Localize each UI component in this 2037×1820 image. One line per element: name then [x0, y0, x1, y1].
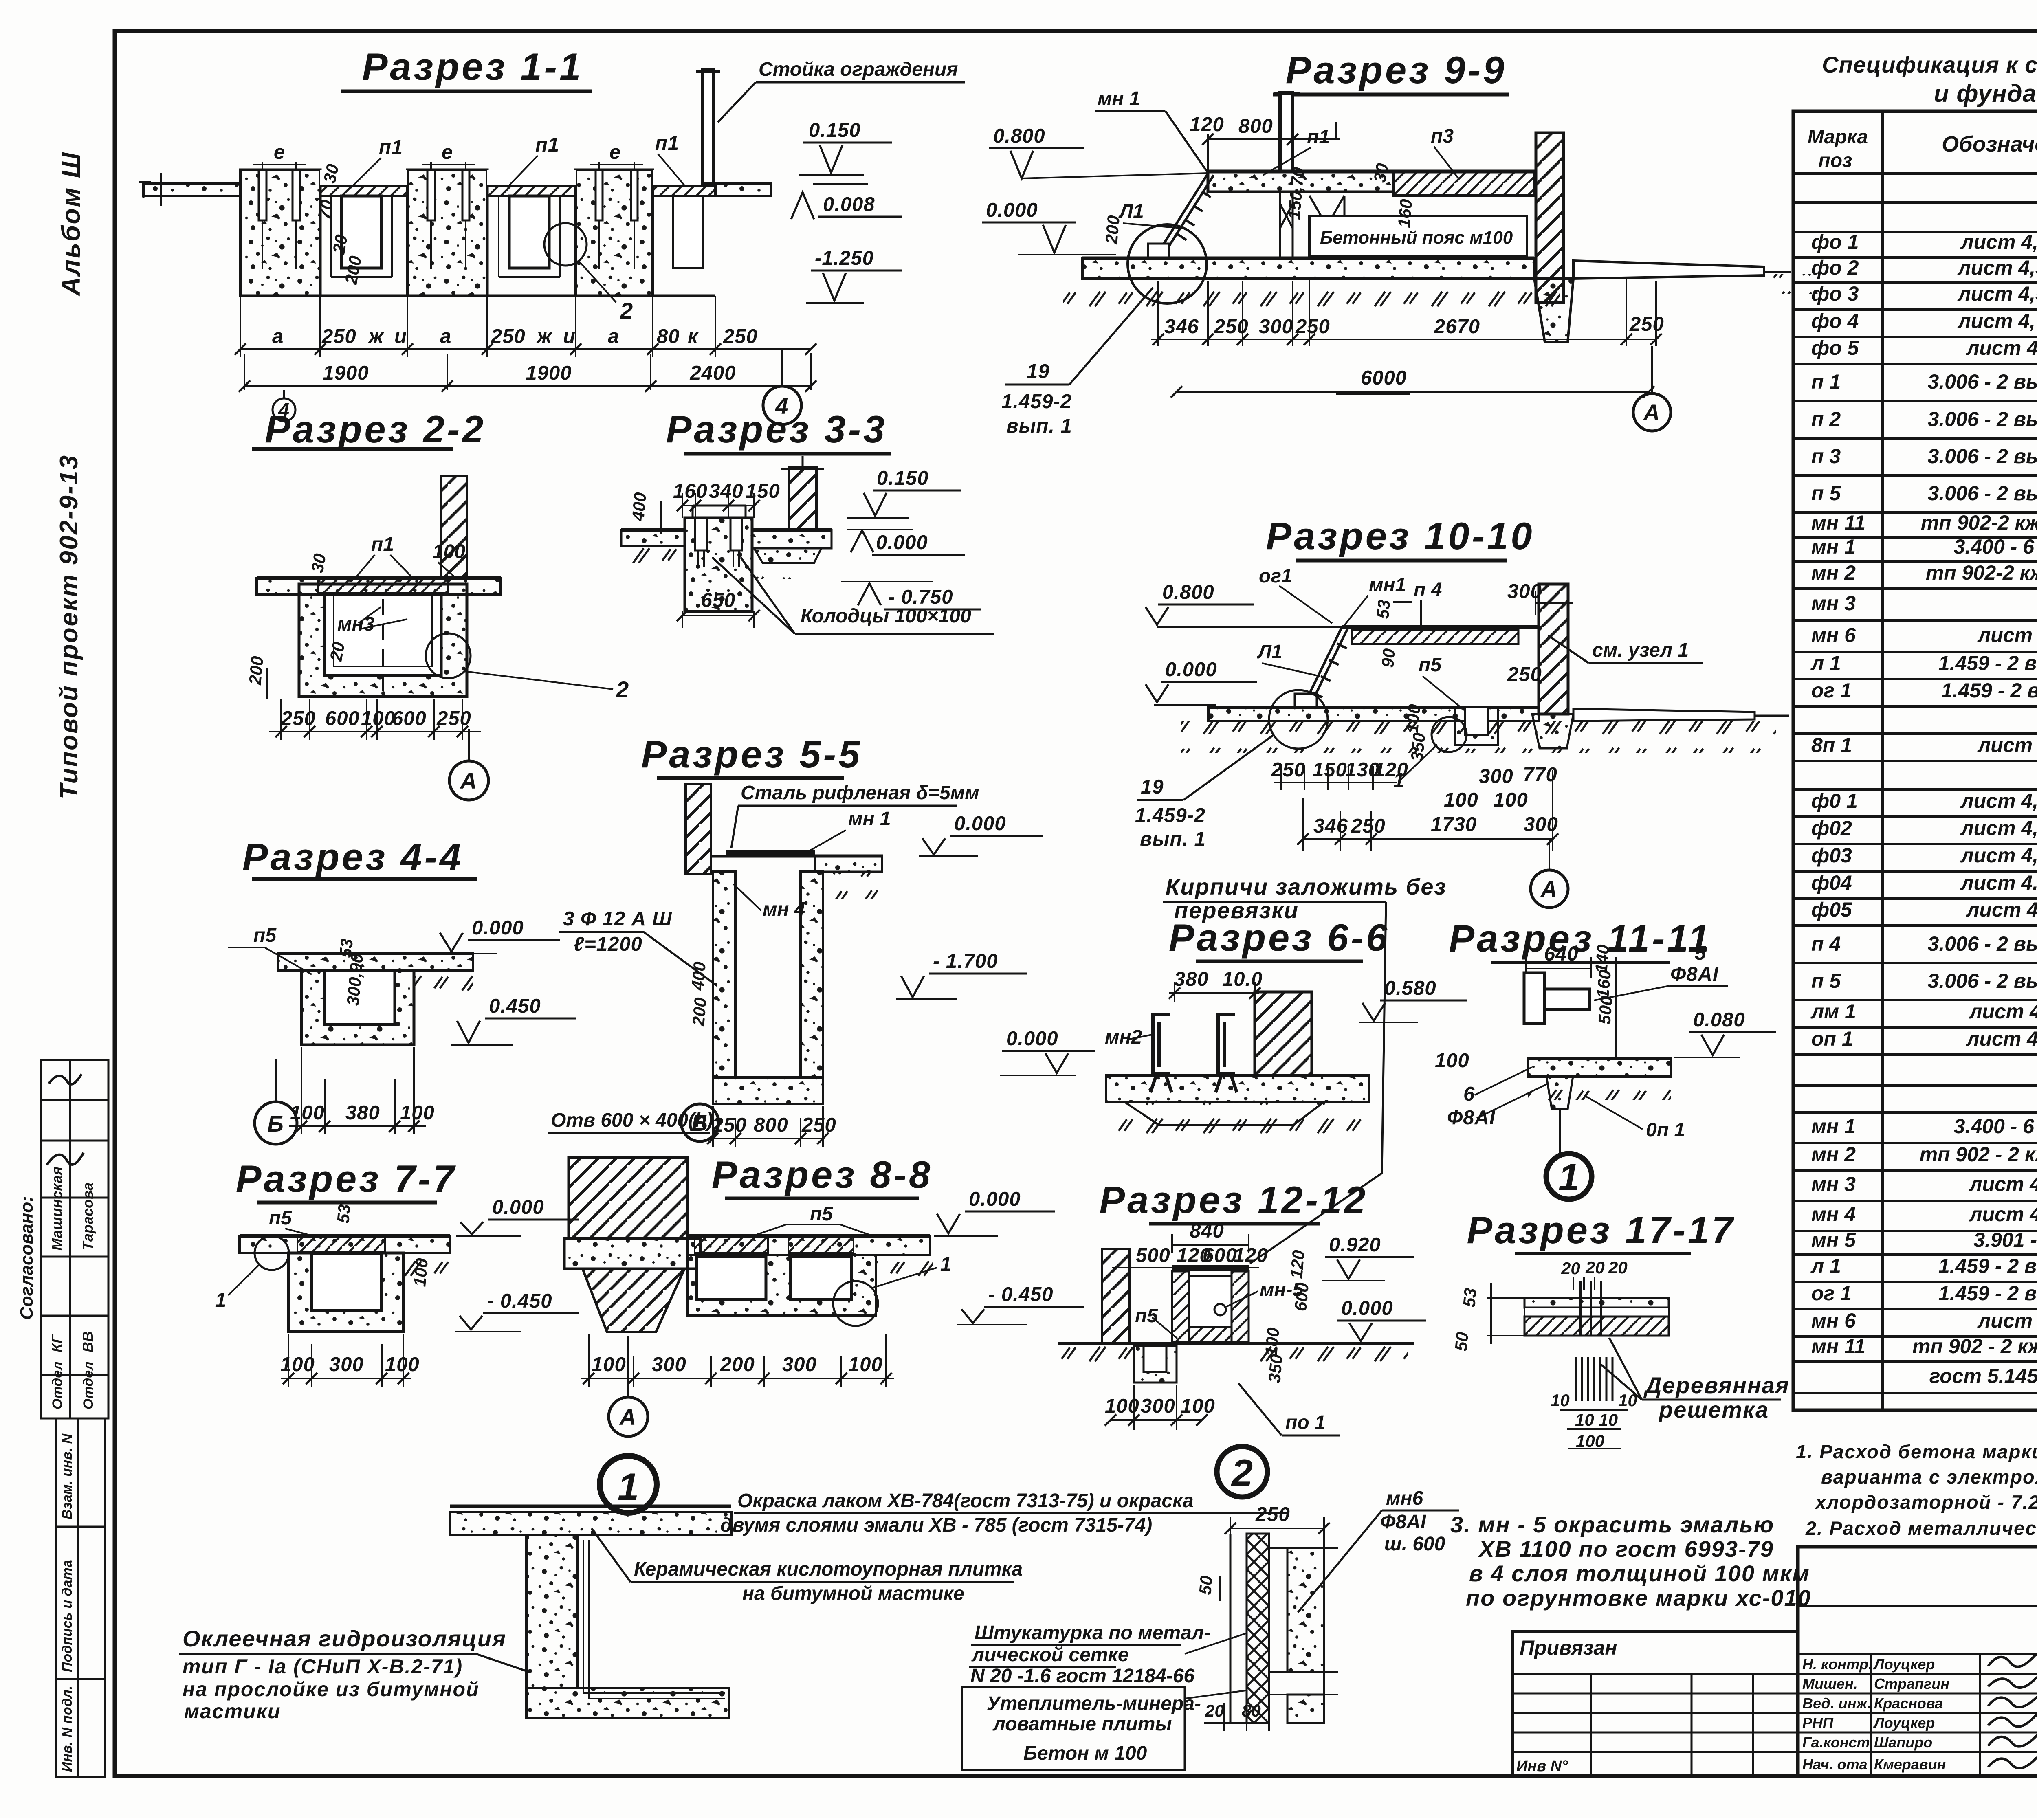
footing [564, 1238, 700, 1269]
svg-text:0.920: 0.920 [1329, 1234, 1381, 1256]
svg-text:400: 400 [688, 961, 709, 991]
svg-text:ф0 1: ф0 1 [1811, 789, 1858, 812]
svg-text:- 0.750: - 0.750 [888, 586, 953, 608]
circled A [449, 761, 488, 800]
svg-text:200: 200 [1102, 215, 1123, 245]
svg-text:вып. 1: вып. 1 [1006, 415, 1072, 437]
svg-text:Разрез 8-8: Разрез 8-8 [712, 1153, 933, 1196]
svg-text:Керамическая кислотоупорная: Керамическая кислотоупорная плитка [634, 1558, 1023, 1580]
svg-text:тп 902-2 кжи мн2: тп 902-2 кжи мн2 [1926, 561, 2037, 584]
svg-text:650: 650 [701, 589, 736, 611]
svg-text:50: 50 [1451, 1331, 1472, 1352]
right ledge wedge [1573, 261, 1764, 279]
svg-text:п5: п5 [1135, 1305, 1158, 1327]
detail circle [1128, 224, 1207, 303]
svg-text:хлордозаторной - 7.25 м³: хлордозаторной - 7.25 м³ [1814, 1491, 2037, 1513]
svg-text:120: 120 [1287, 1249, 1308, 1279]
svg-text:п 5: п 5 [1811, 969, 1841, 992]
slab layers [1524, 1298, 1669, 1308]
svg-text:а: а [272, 325, 284, 347]
dims [713, 1106, 823, 1147]
svg-text:п1: п1 [371, 534, 394, 555]
svg-text:мн 3: мн 3 [1811, 1173, 1856, 1196]
footing block B1 [240, 170, 320, 296]
dim row 1 [240, 296, 811, 357]
ground slab [1208, 707, 1539, 721]
svg-text:лист 4,5,6: лист 4,5,6 [1960, 789, 2037, 812]
svg-text:340: 340 [709, 480, 744, 502]
svg-text:Бетон м 100: Бетон м 100 [1023, 1743, 1147, 1764]
svg-text:0.580: 0.580 [1384, 977, 1436, 999]
svg-text:мн6: мн6 [1386, 1488, 1423, 1509]
svg-text:2: 2 [1231, 1451, 1253, 1494]
svg-text:ш. 600: ш. 600 [1384, 1533, 1445, 1555]
small channel below ground left [1134, 1346, 1177, 1383]
svg-text:лист 4. 6: лист 4. 6 [1966, 898, 2037, 921]
outer concrete box [299, 584, 467, 697]
svg-text:п 4: п 4 [1811, 932, 1841, 955]
svg-text:Мишен.: Мишен. [1802, 1675, 1858, 1692]
svg-text:А: А [460, 768, 477, 794]
svg-text:лист 4,6: лист 4,6 [1969, 1000, 2037, 1023]
svg-text:Машинская: Машинская [48, 1167, 65, 1251]
svg-text:500: 500 [1136, 1244, 1170, 1266]
svg-text:Кмеравин: Кмеравин [1874, 1756, 1946, 1773]
svg-text:70: 70 [314, 198, 337, 220]
svg-text:Б: Б [691, 1110, 708, 1136]
svg-text:250: 250 [321, 325, 356, 347]
svg-text:Краснова: Краснова [1874, 1695, 1943, 1712]
svg-text:1. Расход бетона марки: 1. Расход бетона марки 100 на подпольные… [1796, 1441, 2037, 1462]
right ledge [1573, 709, 1755, 721]
svg-text:0.150: 0.150 [809, 119, 861, 141]
signatures [1988, 1653, 2037, 1768]
svg-text:лист 5: лист 5 [1977, 1309, 2037, 1332]
svg-text:ог1: ог1 [1259, 565, 1292, 587]
svg-text:фо 5: фо 5 [1811, 336, 1859, 359]
svg-text:Окраска лаком ХВ-784(гост 7313: Окраска лаком ХВ-784(гост 7313-75) и окр… [737, 1490, 1194, 1512]
svg-text:100: 100 [280, 1354, 315, 1376]
svg-text:120: 120 [1234, 1244, 1268, 1266]
svg-text:ф04: ф04 [1811, 871, 1852, 894]
svg-text:мн3: мн3 [337, 613, 375, 635]
svg-text:Шапиро: Шапиро [1874, 1734, 1932, 1751]
svg-text:3.006 - 2 вып. П-2: 3.006 - 2 вып. П-2 [1928, 482, 2037, 505]
svg-text:150: 150 [1313, 759, 1347, 781]
svg-text:Разрез 3-3: Разрез 3-3 [666, 408, 887, 451]
svg-text:п3: п3 [1431, 125, 1454, 147]
svg-text:1: 1 [1558, 1156, 1579, 1198]
svg-text:ХВ 1100 по гост 6993-79: ХВ 1100 по гост 6993-79 [1478, 1536, 1774, 1562]
svg-text:160: 160 [673, 480, 708, 502]
svg-text:300: 300 [1141, 1395, 1175, 1417]
svg-text:3.006 - 2 вып. П-2: 3.006 - 2 вып. П-2 [1928, 969, 2037, 992]
svg-text:мн 4: мн 4 [763, 899, 805, 920]
svg-text:1: 1 [215, 1289, 227, 1311]
ground slab [1106, 1075, 1369, 1102]
svg-text:3 Ф 12 А Ш: 3 Ф 12 А Ш [563, 908, 672, 930]
guard post [703, 70, 713, 184]
svg-text:100: 100 [1444, 789, 1478, 811]
svg-text:КГ: КГ [48, 1334, 65, 1352]
svg-text:мн 11: мн 11 [1811, 511, 1865, 534]
notes 1 and 2 [1796, 1441, 2037, 1539]
right ledge [715, 184, 771, 196]
dims below [1111, 1385, 1202, 1430]
svg-text:А: А [1643, 400, 1661, 425]
svg-text:ф05: ф05 [1811, 898, 1852, 921]
svg-text:0п 1: 0п 1 [1646, 1119, 1685, 1141]
svg-text:1.459 - 2 вып 1: 1.459 - 2 вып 1 [1941, 679, 2037, 702]
svg-text:мн 6: мн 6 [1811, 1309, 1856, 1332]
right wall [1536, 133, 1564, 303]
slab [240, 1236, 450, 1253]
svg-text:30: 30 [320, 162, 343, 185]
detail circle + 2 [426, 633, 471, 678]
svg-text:фо 3: фо 3 [1811, 282, 1859, 305]
svg-text:250: 250 [1629, 313, 1664, 335]
svg-text:30: 30 [1370, 162, 1392, 184]
svg-text:по 1: по 1 [1285, 1412, 1326, 1433]
svg-text:3.901 - 5: 3.901 - 5 [1973, 1229, 2037, 1251]
svg-text:на битумной мастике: на битумной мастике [742, 1583, 964, 1605]
channel C1 [320, 170, 407, 277]
svg-text:а: а [608, 325, 619, 347]
svg-text:300: 300 [329, 1354, 364, 1376]
circled 1 bold [1546, 1154, 1592, 1199]
svg-text:Нач. ота: Нач. ота [1802, 1756, 1868, 1773]
svg-text:РНП: РНП [1802, 1714, 1834, 1731]
svg-text:лист 4, 6: лист 4, 6 [1966, 1027, 2037, 1050]
pillar [1255, 992, 1312, 1075]
svg-text:к: к [688, 325, 699, 347]
svg-text:Ф8АІ: Ф8АІ [1447, 1107, 1496, 1129]
svg-text:100: 100 [1402, 703, 1424, 734]
svg-text:и фундаментов под обор: и фундаментов под оборудование [1934, 80, 2037, 107]
svg-text:лист 4,5,6: лист 4,5,6 [1960, 231, 2037, 253]
svg-text:Утеплитель-минера-: Утеплитель-минера- [987, 1693, 1201, 1714]
svg-text:1.459 - 2 вып. 1: 1.459 - 2 вып. 1 [1938, 1282, 2037, 1305]
svg-text:2: 2 [620, 298, 634, 323]
svg-text:лм 1: лм 1 [1810, 1000, 1856, 1023]
svg-text:5: 5 [1695, 942, 1706, 964]
svg-text:Привязан: Привязан [1520, 1636, 1617, 1659]
svg-text:53: 53 [1373, 599, 1394, 620]
svg-text:фо 1: фо 1 [1811, 231, 1859, 253]
svg-text:8п 1: 8п 1 [1811, 734, 1852, 756]
svg-text:200: 200 [720, 1354, 755, 1376]
dims [581, 1334, 894, 1387]
svg-text:ж: ж [367, 325, 385, 347]
svg-text:мн 11: мн 11 [1811, 1335, 1865, 1358]
svg-text:мастики: мастики [184, 1700, 281, 1723]
block [301, 971, 414, 1045]
svg-text:380: 380 [345, 1102, 380, 1124]
svg-text:300: 300 [1479, 765, 1513, 787]
svg-text:0.000: 0.000 [1341, 1297, 1393, 1319]
svg-text:Штукатурка по метал-: Штукатурка по метал- [975, 1622, 1210, 1644]
svg-text:300: 300 [1507, 580, 1542, 602]
svg-text:160: 160 [1394, 198, 1416, 229]
svg-text:10: 10 [1551, 1391, 1570, 1410]
svg-text:600: 600 [1203, 1244, 1237, 1266]
svg-text:варианта с электролизной -: варианта с электролизной - 4.8 м³ ; для … [1821, 1466, 2037, 1488]
svg-text:Марка: Марка [1808, 126, 1868, 148]
svg-text:0.000: 0.000 [472, 917, 524, 939]
svg-text:ф02: ф02 [1811, 817, 1852, 840]
svg-text:2670: 2670 [1434, 316, 1480, 338]
svg-text:800: 800 [754, 1114, 788, 1136]
svg-text:800: 800 [1238, 115, 1273, 137]
svg-text:640: 640 [1544, 943, 1579, 965]
lid plate [726, 850, 815, 856]
dims [289, 1047, 426, 1134]
svg-text:3.006 - 2 вып. П-2: 3.006 - 2 вып. П-2 [1928, 932, 2037, 955]
svg-text:20: 20 [326, 640, 348, 663]
svg-text:п1: п1 [379, 136, 403, 158]
anchor slots [259, 170, 638, 220]
left slab [621, 530, 685, 546]
left approval stamp table [41, 1060, 108, 1418]
top slab P3 hatched [1393, 171, 1534, 196]
channel C3 [653, 170, 715, 268]
svg-text:Л1: Л1 [1257, 641, 1282, 663]
svg-text:1: 1 [618, 1465, 639, 1508]
svg-text:Отдел: Отдел [81, 1361, 96, 1409]
svg-text:100: 100 [592, 1354, 626, 1376]
svg-text:1900: 1900 [323, 362, 369, 384]
footing block B3 [576, 170, 653, 296]
circled B [681, 1104, 719, 1141]
svg-text:Разрез 2-2: Разрез 2-2 [265, 408, 486, 451]
svg-text:Сталь рифленая δ=5мм: Сталь рифленая δ=5мм [741, 782, 979, 804]
svg-text:п1: п1 [655, 132, 679, 154]
svg-text:п1: п1 [1307, 126, 1330, 148]
MN2 anchors [1150, 1014, 1172, 1092]
svg-text:лист 5: лист 5 [1977, 624, 2037, 646]
svg-text:см. узел 1: см. узел 1 [1592, 640, 1689, 661]
small channel [1455, 707, 1498, 745]
svg-text:50: 50 [1195, 1575, 1216, 1596]
footing block B2 [407, 170, 487, 296]
column [569, 1158, 688, 1238]
svg-text:100: 100 [1105, 1395, 1139, 1417]
dims 160 340 150 [673, 480, 780, 502]
post [1280, 92, 1293, 171]
circled 4 large [763, 386, 801, 424]
svg-text:0.450: 0.450 [489, 995, 541, 1017]
svg-text:80: 80 [657, 325, 680, 347]
svg-text:Инв N°: Инв N° [1516, 1758, 1568, 1775]
svg-text:и: и [563, 325, 576, 347]
svg-text:мн1: мн1 [1369, 574, 1406, 596]
svg-text:- 0.450: - 0.450 [988, 1284, 1054, 1306]
svg-text:100: 100 [1576, 1431, 1604, 1451]
svg-text:ℓ=1200: ℓ=1200 [574, 933, 642, 955]
svg-text:оп 1: оп 1 [1811, 1027, 1853, 1050]
svg-text:и: и [394, 325, 407, 347]
svg-text:20: 20 [329, 233, 351, 255]
staff grid [1798, 1654, 2037, 1776]
svg-text:Деревянная: Деревянная [1643, 1372, 1790, 1398]
svg-text:Отдел: Отдел [50, 1361, 65, 1409]
svg-text:мн 4: мн 4 [1811, 1203, 1856, 1226]
comb below [1576, 1357, 1612, 1401]
svg-text:0.008: 0.008 [823, 193, 875, 215]
svg-text:на прослойке из битумной: на прослойке из битумной [183, 1678, 480, 1701]
svg-text:в 4 слоя толщиной 100 мкм: в 4 слоя толщиной 100 мкм [1469, 1561, 1810, 1586]
svg-text:100: 100 [385, 1354, 420, 1376]
base [1528, 1058, 1671, 1077]
concrete belt box [1309, 216, 1527, 257]
svg-text:А: А [1540, 876, 1558, 902]
svg-text:2400: 2400 [689, 362, 736, 384]
svg-text:250: 250 [1214, 316, 1249, 338]
svg-text:3.006 - 2 вып. П-2: 3.006 - 2 вып. П-2 [1928, 445, 2037, 468]
svg-text:Взам. инв. N: Взам. инв. N [59, 1433, 75, 1519]
wall strips [1230, 1534, 1232, 1723]
slab [688, 1236, 930, 1255]
wall above [441, 476, 467, 578]
svg-text:л 1: л 1 [1810, 1255, 1841, 1277]
signatures in stamp [47, 1074, 84, 1165]
svg-text:3.006 - 2 вып. П-2: 3.006 - 2 вып. П-2 [1928, 370, 2037, 393]
pillar [789, 468, 816, 530]
svg-text:0.800: 0.800 [993, 125, 1045, 147]
inner wall under post [1280, 192, 1344, 258]
svg-text:0.000: 0.000 [969, 1188, 1021, 1210]
top slab band [257, 578, 501, 595]
circled A [1531, 870, 1568, 908]
svg-text:346: 346 [1164, 316, 1199, 338]
svg-text:поз: поз [1818, 150, 1852, 171]
slab [450, 1505, 731, 1508]
svg-text:Отв 600 × 400(h): Отв 600 × 400(h) [551, 1110, 713, 1131]
right wall [1539, 584, 1568, 714]
svg-text:по огрунтовке марки хс-010: по огрунтовке марки хс-010 [1466, 1585, 1811, 1611]
svg-text:1.459 - 2 вып. 1: 1.459 - 2 вып. 1 [1938, 1255, 2037, 1277]
svg-text:300: 300 [1259, 316, 1293, 338]
svg-text:250: 250 [1271, 759, 1306, 781]
svg-text:3.006 - 2 вып. П-2: 3.006 - 2 вып. П-2 [1928, 408, 2037, 431]
svg-text:мн 6: мн 6 [1811, 624, 1856, 646]
circled B [255, 1102, 297, 1144]
circled 4 small [273, 398, 295, 421]
svg-text:ловатные плиты: ловатные плиты [992, 1713, 1172, 1735]
svg-text:гост 5.1459 - 72*: гост 5.1459 - 72* [1929, 1365, 2037, 1387]
dim row bottom [1303, 770, 1553, 851]
svg-text:140: 140 [1591, 944, 1613, 974]
svg-text:Спецификация к схеме распол: Спецификация к схеме расположения подпол… [1822, 52, 2037, 77]
svg-text:53: 53 [333, 1203, 354, 1224]
svg-text:тп 902 - 2 кжи мн 11: тп 902 - 2 кжи мн 11 [1912, 1335, 2037, 1358]
svg-text:п5: п5 [253, 925, 277, 946]
svg-text:20: 20 [1585, 1258, 1605, 1277]
circled 2 bold [1217, 1446, 1267, 1497]
svg-text:лист 4, 6: лист 4, 6 [1966, 336, 2037, 359]
svg-text:фо 2: фо 2 [1811, 256, 1859, 279]
svg-text:350: 350 [1265, 1354, 1286, 1384]
svg-text:20: 20 [1608, 1258, 1628, 1277]
slab right [815, 855, 882, 872]
svg-text:е: е [609, 141, 621, 163]
svg-text:20: 20 [1561, 1259, 1580, 1278]
svg-text:Н. контр.: Н. контр. [1802, 1656, 1872, 1673]
svg-text:350: 350 [1407, 732, 1429, 762]
svg-text:Согласовано:: Согласовано: [17, 1196, 37, 1320]
svg-text:2. Расход металлической: 2. Расход металлической сетки по гост 12… [1805, 1517, 2037, 1539]
svg-text:лист 4.5: лист 4.5 [1969, 1173, 2037, 1196]
channel [1172, 1265, 1249, 1271]
svg-text:250: 250 [801, 1114, 836, 1136]
svg-text:0.080: 0.080 [1693, 1009, 1745, 1031]
svg-text:1900: 1900 [526, 362, 572, 384]
slab [278, 954, 473, 971]
svg-text:250: 250 [1255, 1503, 1290, 1525]
block [288, 1253, 403, 1332]
svg-text:- 1.700: - 1.700 [933, 950, 998, 972]
dims [1271, 759, 1408, 781]
right slab [752, 530, 832, 548]
svg-text:лист 4,5, 6: лист 4,5, 6 [1958, 282, 2037, 305]
svg-text:Вед. инж.: Вед. инж. [1802, 1695, 1871, 1712]
svg-text:100: 100 [1261, 1327, 1283, 1357]
svg-text:100: 100 [361, 708, 396, 730]
dims [281, 1334, 411, 1387]
svg-text:Разрез 1-1: Разрез 1-1 [362, 45, 583, 88]
svg-text:0.800: 0.800 [1162, 581, 1214, 603]
svg-text:Разрез 6-6: Разрез 6-6 [1169, 916, 1390, 959]
svg-text:Ф8АІ: Ф8АІ [1670, 963, 1719, 985]
circled A [609, 1397, 648, 1436]
svg-text:Разрез 12-12: Разрез 12-12 [1099, 1178, 1368, 1221]
svg-text:Ф8АІ: Ф8АІ [1380, 1511, 1427, 1533]
ladder [1304, 627, 1348, 706]
svg-text:300: 300 [652, 1354, 686, 1376]
svg-text:Обозначение: Обозначение [1942, 132, 2037, 156]
left wall [686, 784, 711, 874]
svg-text:лической сетке: лической сетке [971, 1644, 1129, 1666]
svg-text:п1: п1 [535, 134, 559, 156]
svg-text:тп 902-2 кжи мн11: тп 902-2 кжи мн11 [1921, 511, 2037, 534]
dim row [269, 699, 481, 740]
svg-text:лист 4,5,6: лист 4,5,6 [1960, 817, 2037, 840]
svg-text:300: 300 [782, 1354, 817, 1376]
svg-text:250: 250 [1351, 815, 1386, 837]
svg-text:п 1: п 1 [1811, 370, 1841, 393]
svg-text:10.0: 10.0 [1222, 968, 1263, 990]
svg-text:лист 4, 5,6: лист 4, 5,6 [1958, 310, 2037, 332]
svg-text:Разрез 7-7: Разрез 7-7 [236, 1157, 457, 1200]
svg-text:Разрез 10-10: Разрез 10-10 [1266, 514, 1534, 557]
svg-text:600: 600 [392, 708, 427, 730]
svg-text:Разрез 17-17: Разрез 17-17 [1467, 1209, 1735, 1251]
svg-text:Типовой проект 902-9-13: Типовой проект 902-9-13 [55, 454, 83, 799]
svg-text:ж: ж [536, 325, 553, 347]
detail circles [1269, 690, 1328, 749]
svg-text:фо 4: фо 4 [1811, 310, 1859, 332]
svg-text:N 20 -1.6 гост 12184-66: N 20 -1.6 гост 12184-66 [970, 1665, 1194, 1687]
svg-text:90: 90 [1378, 648, 1399, 668]
dim row 2 [244, 353, 811, 390]
svg-text:тип Г - Iа (СНиП X-В.2-71): тип Г - Iа (СНиП X-В.2-71) [183, 1655, 463, 1678]
svg-text:Страпгин: Страпгин [1874, 1675, 1949, 1692]
svg-text:19: 19 [1141, 776, 1164, 798]
svg-text:200: 200 [245, 655, 267, 686]
svg-text:250: 250 [491, 325, 526, 347]
svg-text:п5: п5 [1419, 654, 1442, 676]
block with wells [685, 518, 752, 611]
